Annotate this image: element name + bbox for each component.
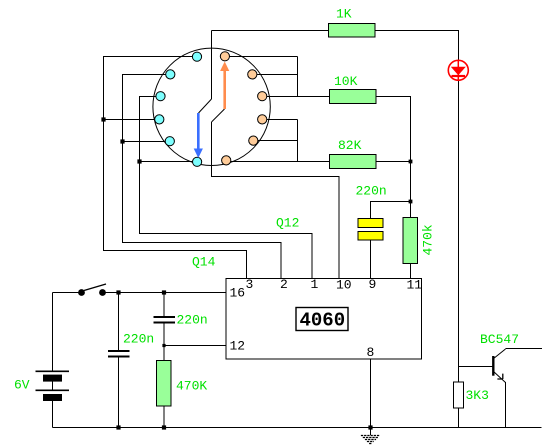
wire: bottom ground rail: [53, 427, 542, 429]
rotary switch contact R6: [222, 156, 231, 165]
svg-text:3: 3: [246, 277, 254, 292]
junction: 220n/470k node: [409, 200, 413, 204]
svg-text:10: 10: [336, 278, 352, 293]
wire: contact R2 stub: [253, 74, 298, 76]
wire: left 220n cap bottom lead: [118, 357, 120, 428]
svg-text:3K3: 3K3: [466, 388, 489, 403]
svg-text:9: 9: [369, 277, 377, 292]
wire: battery top lead: [52, 293, 54, 372]
svg-text:470k: 470k: [421, 224, 436, 255]
junction: ground rail / pin 8: [368, 425, 372, 429]
svg-text:16: 16: [230, 286, 246, 301]
wire: switch contact L1 to pin 3 (Q14): [104, 57, 247, 279]
rotary switch contact R1: [220, 52, 229, 61]
junction: ground rail / 470K: [162, 425, 166, 429]
wire: node to 470K top: [163, 346, 165, 361]
rotary switch contact R3: [258, 92, 267, 101]
svg-text:11: 11: [407, 278, 423, 293]
transistor Q1 BC547 base bar: [492, 356, 494, 376]
junction: 82K right node: [409, 160, 413, 164]
wire: switch contact L2 to pin 2: [123, 75, 282, 279]
capacitor C3 220n plates: [108, 351, 130, 357]
wire: wiper B common down, to pin 10: [212, 122, 340, 279]
wire: battery plus to switch: [53, 292, 82, 294]
svg-text:1: 1: [311, 277, 319, 292]
wire: node to 470k top: [410, 202, 412, 218]
LED D1: [448, 60, 468, 81]
wire: battery bottom lead: [52, 401, 54, 428]
wire: emitter down to ground rail: [505, 382, 507, 428]
wire: base node to Q1 base: [459, 366, 493, 368]
transistor Q1 emitter arrowhead: [497, 374, 502, 379]
wire: LED cathode down to transistor base node and 3K3: [458, 81, 460, 428]
svg-text:10K: 10K: [334, 74, 358, 89]
rotary switch contact R2: [248, 70, 257, 79]
junction: L3/L6: [137, 159, 141, 163]
svg-text:2: 2: [280, 277, 288, 292]
resistor R1 1K: [329, 24, 376, 38]
capacitor C2 220n plates: [154, 317, 176, 323]
IC U1 4060 body: [226, 279, 422, 360]
wire: switch contact L3 to pin 1 (Q12): [140, 97, 313, 279]
transistor Q1 emitter diagonal: [493, 371, 506, 383]
wire: wiper A common vertical (top): [211, 31, 213, 100]
resistor R4 470k (vertical): [403, 218, 418, 264]
rotary switch contact L4: [155, 115, 164, 124]
wire: mid 220n cap bottom lead to node: [163, 324, 165, 346]
wire: cap bottom to pin 9: [370, 240, 372, 279]
svg-text:Q12: Q12: [276, 216, 299, 231]
wire: wiper common to 1K (top): [212, 30, 329, 32]
svg-text:1K: 1K: [336, 7, 352, 22]
wire: junction down to 220n node: [410, 162, 412, 202]
switch S1 lever: [84, 284, 106, 291]
wire: contact L5 stub: [123, 141, 171, 143]
wire: contact R4 stub: [262, 119, 298, 121]
junction: rail / C3: [116, 290, 120, 294]
wire: node to pin 12: [164, 345, 226, 347]
svg-text:Q14: Q14: [192, 255, 216, 270]
svg-text:6V: 6V: [14, 378, 30, 393]
capacitor C1 220n (yellow) top plate: [358, 219, 383, 228]
wire: 1K to LED top corner: [375, 31, 459, 61]
junction: L2/L5: [120, 139, 124, 143]
wire: 470k bottom to pin 11: [410, 264, 412, 279]
wire: contact R1 stub: [225, 56, 298, 58]
wire: switch to pin 16 rail: [103, 292, 227, 294]
rotary switch contact R5: [249, 136, 258, 145]
wire: contact R5 stub: [253, 140, 298, 142]
svg-text:220n: 220n: [177, 313, 208, 328]
rotary switch contact R4: [258, 115, 267, 124]
wire: wiper A jog diagonal: [199, 99, 212, 113]
wire: 10K right to bus down: [376, 97, 411, 162]
wire: battery inter-cell link: [52, 382, 54, 391]
wire: contact R3 to 10K: [262, 96, 330, 98]
wire: contact L6 stub: [140, 161, 198, 163]
rotary switch contact L3: [156, 92, 165, 101]
svg-text:220n: 220n: [123, 332, 154, 347]
wire: collector output to right edge: [506, 348, 542, 350]
wire: mid 220n cap top lead: [163, 293, 165, 317]
svg-text:220n: 220n: [356, 184, 387, 199]
ground symbol: [361, 436, 380, 444]
battery B1 6V plates: [36, 371, 70, 390]
svg-text:12: 12: [230, 339, 246, 354]
resistor R3 82K: [330, 155, 377, 169]
rotary switch wiper arrow (blue, down): [197, 113, 200, 150]
resistor R6 3K3: [454, 382, 464, 408]
capacitor C1 220n (yellow) bottom plate: [358, 232, 383, 241]
wire: contact R6 to 82K: [226, 161, 330, 163]
resistor R5 470K (vertical): [157, 361, 172, 407]
svg-text:4060: 4060: [300, 310, 346, 332]
svg-text:BC547: BC547: [480, 332, 519, 347]
wire: left 220n cap top lead: [118, 293, 120, 351]
rotary switch wiper arrow (orange, up): [223, 71, 226, 110]
IC U1 label box: [296, 308, 348, 331]
wire: 82K right to junction: [376, 161, 411, 163]
rotary switch contact L6: [193, 157, 202, 166]
rotary switch contact L5: [165, 137, 174, 146]
transistor Q1 collector diagonal: [493, 349, 506, 359]
rotary switch contact L1: [192, 52, 201, 61]
rotary switch contact L2: [166, 70, 175, 79]
junction: C2 / pin12 node: [162, 344, 165, 347]
wire: contact L4 stub: [104, 119, 160, 121]
wire: right bus lower: [297, 120, 299, 162]
rotary switch S2 body circle: [153, 48, 270, 165]
wire: pin 8 to ground: [370, 359, 372, 435]
junction: ground rail / C3: [116, 425, 120, 429]
resistor R2 10K: [330, 90, 377, 104]
svg-text:470K: 470K: [176, 379, 207, 394]
svg-text:8: 8: [367, 345, 375, 360]
switch S1 pole contacts: [78, 289, 85, 296]
svg-text:82K: 82K: [338, 138, 362, 153]
junction: rail / C2: [162, 290, 166, 294]
wire: 470K bottom to ground rail: [163, 406, 165, 428]
wire: 220n node branch to cap top: [371, 202, 411, 219]
wire: wiper B jog diagonal: [212, 109, 225, 122]
junction: L1/L4: [101, 117, 105, 121]
wire: right bus upper: [297, 57, 299, 97]
